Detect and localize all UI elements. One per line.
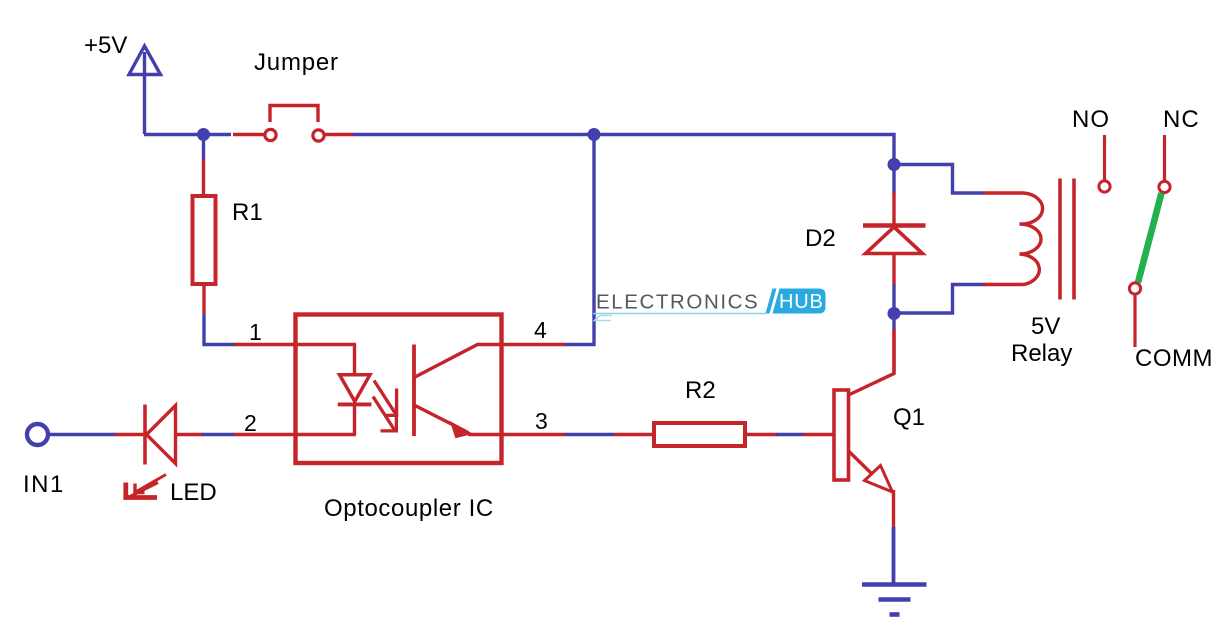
switch blade green bbox=[1138, 193, 1162, 283]
node junction dot C (relay top) bbox=[888, 158, 901, 171]
wire emitter to ground bbox=[892, 527, 896, 585]
wire R1 bottom to pin1 bbox=[204, 284, 356, 345]
svg-text:NC: NC bbox=[1163, 106, 1200, 133]
svg-text:Relay: Relay bbox=[1011, 340, 1072, 367]
wire top-left horizontal blue bbox=[144, 133, 231, 136]
watermark underline bbox=[593, 314, 766, 321]
diode D2 branch top bbox=[892, 165, 895, 225]
wire pin3 to R2 bbox=[501, 433, 655, 436]
svg-text:Jumper: Jumper bbox=[254, 49, 339, 76]
diode LED D1 input bbox=[145, 405, 176, 465]
optocoupler light arrows bbox=[373, 381, 397, 431]
svg-text:COMM: COMM bbox=[1135, 345, 1213, 372]
svg-text:1: 1 bbox=[249, 319, 262, 345]
svg-text:IN1: IN1 bbox=[23, 471, 65, 498]
ground symbol bbox=[862, 585, 927, 615]
watermark HUB badge wedge bbox=[766, 289, 777, 314]
watermark HUB badge body bbox=[773, 289, 826, 314]
transistor Q1 base bar bbox=[834, 390, 849, 480]
wire relay coil top feed bbox=[894, 165, 1024, 194]
optocoupler phototransistor bbox=[414, 345, 501, 438]
svg-text:NO: NO bbox=[1072, 106, 1110, 133]
wire jumper red stub left bbox=[233, 133, 264, 136]
svg-text:ELECTRONICS: ELECTRONICS bbox=[596, 291, 760, 314]
node junction dot A (+5V rail) bbox=[197, 128, 210, 141]
wire LED to pin2 bbox=[176, 433, 357, 436]
svg-text:HUB: HUB bbox=[779, 291, 824, 313]
input terminal IN1 bbox=[27, 424, 48, 445]
contact NO terminal bbox=[1099, 135, 1110, 192]
svg-text:D2: D2 bbox=[805, 225, 836, 252]
svg-text:Optocoupler IC: Optocoupler IC bbox=[324, 495, 494, 522]
contact NC terminal bbox=[1159, 135, 1170, 193]
wire IN1 to LED bbox=[48, 433, 145, 436]
node junction dot B (mid rail) bbox=[588, 128, 601, 141]
wire R1 top bbox=[202, 134, 205, 196]
svg-text:LED: LED bbox=[170, 479, 217, 506]
node junction dot D (relay bottom) bbox=[888, 307, 901, 320]
relay coil K1 bbox=[1020, 193, 1043, 285]
svg-text:5V: 5V bbox=[1031, 313, 1060, 340]
svg-text:+5V: +5V bbox=[84, 32, 127, 59]
svg-text:2: 2 bbox=[244, 410, 257, 436]
diode D2 branch bottom bbox=[892, 254, 895, 374]
wire jumper red stub right bbox=[325, 133, 354, 136]
jumper J1 bbox=[265, 106, 324, 142]
svg-text:Q1: Q1 bbox=[893, 404, 925, 431]
optocoupler U1 box bbox=[296, 315, 502, 464]
wire R2 to Q1 base bbox=[745, 433, 834, 436]
svg-text:R2: R2 bbox=[685, 377, 716, 404]
LED emission arrows bbox=[126, 475, 166, 498]
svg-text:R1: R1 bbox=[232, 199, 263, 226]
diode D2 bbox=[863, 226, 926, 254]
relay core lines bbox=[1060, 179, 1074, 300]
wire relay coil bottom feed bbox=[894, 285, 1024, 314]
svg-text:3: 3 bbox=[535, 408, 548, 434]
resistor R1 bbox=[193, 196, 216, 284]
transistor Q1 emitter bbox=[849, 451, 894, 528]
wire top main blue to relay corner bbox=[353, 135, 894, 165]
optocoupler internal LED bbox=[338, 344, 372, 434]
wire pin4 to mid rail bbox=[501, 136, 594, 345]
resistor R2 bbox=[654, 423, 745, 446]
svg-text:4: 4 bbox=[534, 317, 547, 343]
contact COMM terminal bbox=[1129, 283, 1140, 347]
power +5V symbol bbox=[129, 46, 161, 134]
transistor Q1 collector bbox=[849, 330, 895, 395]
